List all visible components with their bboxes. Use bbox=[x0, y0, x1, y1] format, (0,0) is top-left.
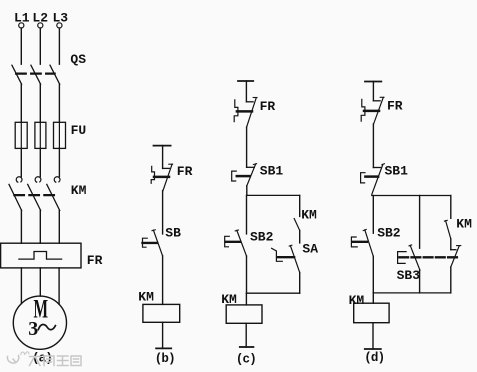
wire L3 FR to motor bbox=[58, 268, 60, 304]
terminal circle L1 bbox=[19, 23, 24, 28]
svg-text:KM: KM bbox=[456, 216, 472, 231]
fuse FU 1 bbox=[20, 122, 22, 148]
wire (c) right branch from node bbox=[299, 195, 301, 216]
contactor KM pole 2 blade bbox=[28, 184, 41, 210]
thermal contact FR (d) fixed tick bbox=[373, 100, 380, 102]
aux contact KM (c) blade bbox=[294, 219, 300, 231]
pushbutton SB (b) blade bbox=[153, 230, 162, 256]
start button SB2 (d) pusher bar bbox=[352, 241, 367, 243]
wire L2 QS to FU bbox=[39, 84, 41, 122]
switch SA (c) blade bbox=[290, 246, 299, 273]
jog button SB3 (d) NO blade serif bbox=[409, 245, 412, 246]
svg-text:SB2: SB2 bbox=[250, 229, 274, 244]
thermal contact FR (d) pusher bar bbox=[364, 110, 379, 113]
jog button SB3 (d) NC fixed tick bbox=[451, 249, 456, 251]
wire (d) SB3 to bottom node bbox=[419, 270, 421, 293]
wire (d) bar to FR bbox=[372, 82, 374, 101]
stop button SB1 (c) fixed tick bbox=[247, 166, 255, 168]
svg-text:KM: KM bbox=[301, 207, 317, 222]
thermal contact FR (b) pusher bar bbox=[154, 176, 169, 179]
thermal relay FR heater box bbox=[1, 243, 81, 268]
wire (b) coil to bottom bbox=[162, 322, 164, 348]
start button SB2 (c) blade serif bbox=[235, 229, 238, 232]
fuse FU 2 bbox=[39, 122, 41, 148]
svg-text:SB: SB bbox=[165, 226, 181, 241]
wire (c) FR to SB1 bbox=[246, 127, 248, 167]
jog button SB3 (d) NC blade bbox=[451, 246, 460, 267]
svg-text:FR: FR bbox=[177, 164, 193, 179]
svg-text:KM: KM bbox=[349, 293, 365, 308]
contactor KM pole 1 blade bbox=[9, 184, 22, 210]
svg-text:FU: FU bbox=[71, 123, 87, 138]
stop button SB1 (c) blade serif bbox=[253, 163, 256, 166]
contactor KM pole 1 fixed contact arc bbox=[16, 177, 22, 182]
switch QS pole 1 blade bbox=[12, 65, 22, 84]
start button SB2 (d) operator bbox=[351, 237, 357, 247]
bottom terminal bar (c) bbox=[240, 346, 254, 348]
switch SA (c) lever operator bbox=[272, 248, 283, 261]
start button SB2 (d) blade bbox=[365, 230, 374, 256]
wire (c) KM to SA bbox=[299, 230, 301, 243]
node (c) bottom junction bbox=[246, 292, 299, 294]
coil KM (d) bbox=[354, 303, 389, 323]
wire (b) SB to coil bbox=[162, 256, 164, 305]
wire (d) SB2 to bottom node bbox=[372, 256, 374, 293]
svg-text:FR: FR bbox=[260, 99, 276, 114]
start button SB2 (c) operator bbox=[225, 236, 230, 247]
switch QS linkage dashed bbox=[16, 72, 54, 74]
bottom terminal bar (b) bbox=[156, 347, 171, 349]
wire (c) node to coil bbox=[245, 293, 247, 305]
stop button SB1 (d) blade serif bbox=[382, 164, 385, 165]
svg-text:3: 3 bbox=[28, 318, 38, 340]
aux contact KM (d) blade serif bbox=[444, 219, 447, 222]
svg-text:SB1: SB1 bbox=[260, 164, 284, 179]
pushbutton SB (b) operator bbox=[143, 238, 148, 247]
wire L3 KM to FR bbox=[58, 210, 60, 243]
stop button SB1 (d) fixed tick bbox=[373, 167, 380, 169]
svg-text:(d): (d) bbox=[364, 351, 384, 365]
terminal circle L3 bbox=[57, 23, 62, 28]
wire L1 to QS bbox=[20, 28, 22, 64]
stop button SB1 (d) operator bbox=[361, 173, 365, 183]
wire L3 to QS bbox=[58, 28, 60, 64]
contactor KM linkage dashed bbox=[14, 194, 54, 196]
coil KM (b) bbox=[143, 304, 180, 322]
svg-text:FR: FR bbox=[387, 99, 403, 114]
svg-text:SB1: SB1 bbox=[385, 164, 409, 179]
thermal contact FR (d) blade bbox=[374, 97, 384, 124]
wire (b) FR to SB bbox=[162, 191, 164, 234]
wire (d) coil to bottom bbox=[372, 323, 374, 349]
svg-text:SA: SA bbox=[302, 241, 318, 256]
jog button SB3 (d) NO blade bbox=[410, 245, 420, 270]
thermal contact FR (b) blade bbox=[163, 164, 172, 191]
motor M circle bbox=[13, 296, 66, 349]
wire (d) node to SB2 bbox=[372, 196, 374, 234]
thermal contact FR (b) fixed tick bbox=[163, 167, 170, 169]
motor tilde bbox=[38, 324, 55, 329]
wire L1 KM to FR bbox=[20, 210, 22, 243]
supply terminal bar (d) bbox=[365, 81, 381, 83]
jog button SB3 (d) operator bbox=[398, 252, 407, 264]
wire (b) bar to FR bbox=[162, 146, 164, 169]
wire (d) FR to SB1 bbox=[372, 124, 374, 168]
watermark logo bottom-left (decorative) bbox=[7, 352, 81, 366]
contactor KM pole 3 fixed contact arc bbox=[54, 177, 60, 182]
stop button SB1 (d) blade bbox=[372, 164, 383, 194]
contactor KM pole 3 blade bbox=[47, 184, 60, 210]
svg-text:(b): (b) bbox=[155, 352, 175, 366]
wire L1 FU to KM bbox=[20, 148, 22, 176]
wire (d) node to coil bbox=[372, 293, 374, 303]
start button SB2 (c) pusher bar bbox=[226, 241, 240, 243]
thermal contact FR (c) blade serif bbox=[253, 97, 257, 99]
terminal circle L2 bbox=[38, 23, 43, 28]
wire (c) SB1 to node bbox=[246, 186, 248, 196]
start button SB2 (c) blade bbox=[237, 230, 247, 256]
wire L1 FR to motor bbox=[20, 268, 22, 304]
thermal contact FR (b) actuator hook bbox=[151, 166, 154, 183]
wire (d) right branch from node bbox=[450, 196, 452, 219]
pushbutton SB (b) pusher bar bbox=[143, 242, 158, 244]
supply terminal bar (c) bbox=[238, 80, 253, 82]
wire L2 KM to FR bbox=[39, 210, 41, 243]
svg-text:SB2: SB2 bbox=[377, 226, 401, 241]
wire (c) SA to bottom node bbox=[299, 273, 301, 294]
thermal contact FR (d) actuator hook bbox=[361, 99, 365, 121]
wire L2 FR to motor bbox=[39, 268, 41, 296]
thermal contact FR (c) blade bbox=[247, 98, 257, 128]
wire (c) bar to FR bbox=[245, 81, 247, 102]
start button SB2 (d) blade serif bbox=[363, 230, 366, 231]
wire (d) SB3 NC to bottom node bbox=[450, 267, 452, 293]
wire L2 to QS bbox=[39, 28, 41, 64]
node (d) bottom junction bbox=[373, 292, 451, 294]
fuse FU 3 bbox=[58, 122, 60, 148]
wire (d) middle branch from node bbox=[419, 196, 421, 249]
svg-text:(c): (c) bbox=[236, 352, 256, 366]
node (c) top junction bbox=[247, 194, 300, 196]
switch SA (c) pusher bar bbox=[278, 256, 294, 258]
thermal contact FR (d) blade serif bbox=[380, 96, 384, 98]
contactor KM pole 2 fixed contact arc bbox=[35, 177, 41, 182]
jog button SB3 (d) NC blade serif bbox=[457, 245, 461, 247]
stop button SB1 (c) operator bbox=[232, 171, 237, 181]
svg-text:FR: FR bbox=[87, 253, 103, 268]
wire (d) KM to SB3 NC bbox=[450, 239, 452, 250]
thermal contact FR (b) blade serif bbox=[169, 163, 173, 165]
switch QS pole 2 blade bbox=[31, 65, 41, 84]
wire L3 FU to KM bbox=[58, 148, 60, 176]
wire (c) coil to bottom bbox=[245, 323, 247, 347]
pushbutton SB (b) blade serif bbox=[152, 229, 155, 232]
switch SA (c) blade serif bbox=[289, 244, 292, 247]
wire (c) SB2 to bottom node bbox=[246, 256, 248, 293]
stop button SB1 (c) pusher bar bbox=[237, 175, 250, 178]
wire L3 QS to FU bbox=[58, 84, 60, 122]
switch QS pole 3 blade bbox=[50, 65, 60, 84]
thermal contact FR (c) fixed tick bbox=[246, 101, 253, 103]
wire (c) node to SB2 bbox=[246, 195, 248, 234]
stop button SB1 (d) pusher bar bbox=[365, 175, 378, 178]
node (d) top junction bbox=[372, 195, 451, 197]
bottom terminal bar (d) bbox=[365, 348, 381, 350]
wire L2 FU to KM bbox=[39, 148, 41, 176]
svg-text:KM: KM bbox=[71, 183, 87, 198]
thermal relay FR pulse symbol bbox=[19, 252, 62, 260]
svg-text:QS: QS bbox=[70, 52, 86, 67]
svg-text:SB3: SB3 bbox=[397, 268, 421, 283]
jog button SB3 (d) linkage dashed bbox=[399, 256, 457, 258]
thermal contact FR (c) actuator hook bbox=[234, 100, 238, 122]
aux contact KM (d) blade bbox=[446, 221, 451, 239]
supply terminal bar (b) bbox=[154, 145, 171, 147]
stop button SB1 (c) blade bbox=[247, 164, 256, 186]
thermal contact FR (c) pusher bar bbox=[237, 110, 252, 113]
coil KM (c) bbox=[226, 305, 262, 323]
svg-text:KM: KM bbox=[138, 289, 154, 304]
wire L1 QS to FU bbox=[20, 84, 22, 122]
